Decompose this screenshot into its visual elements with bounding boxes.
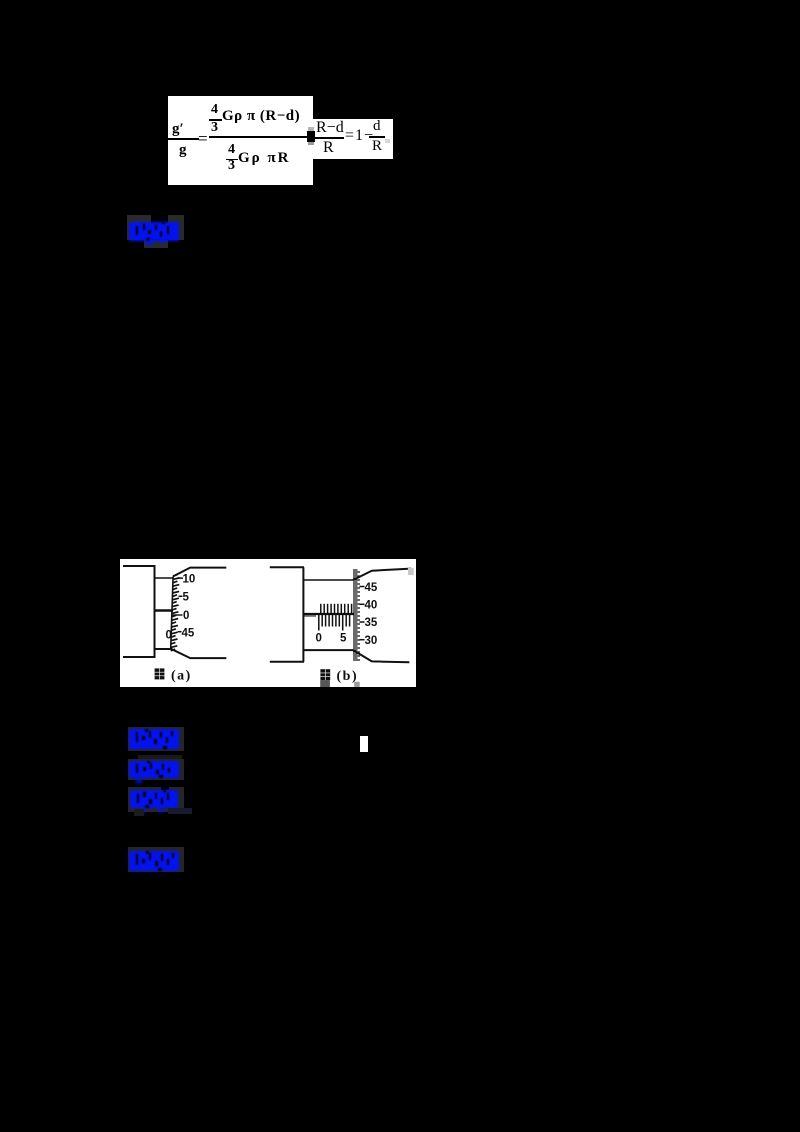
zero dash a xyxy=(172,614,183,616)
knurl a xyxy=(171,574,180,650)
svg-text:40: 40 xyxy=(365,600,378,612)
main fraction bar xyxy=(209,136,313,138)
blue label D gray xyxy=(128,847,184,872)
denominator 4/3 xyxy=(228,142,235,158)
formula g'/g xyxy=(172,121,184,138)
diagram white box xyxy=(120,559,416,687)
thimble edge a xyxy=(171,576,173,649)
main scale lower ticks b xyxy=(319,615,350,631)
blue label B gray xyxy=(128,759,184,780)
numerator 4/3 xyxy=(211,102,218,118)
R-d over R xyxy=(316,119,344,137)
numerator G rho pi (R-d) xyxy=(222,108,300,125)
=1- xyxy=(345,127,374,145)
sleeve lines a xyxy=(155,577,173,579)
caption a xyxy=(155,668,192,683)
blue label C gray xyxy=(128,787,184,812)
thimble outline b xyxy=(353,569,411,580)
sleeve lines b xyxy=(303,579,353,581)
label dashes a xyxy=(178,577,184,579)
d over R xyxy=(373,118,381,135)
svg-text:10: 10 xyxy=(183,573,196,585)
white cursor xyxy=(360,736,368,752)
black square artifact xyxy=(307,131,315,142)
frame outline b xyxy=(270,566,304,568)
blue label A gray xyxy=(128,727,184,751)
svg-text:45: 45 xyxy=(182,627,195,639)
label dashes b xyxy=(360,586,365,588)
formula white box main xyxy=(168,96,313,185)
svg-text:30: 30 xyxy=(365,635,378,647)
gray artifacts xyxy=(408,568,414,575)
formula white box right extension xyxy=(311,119,393,159)
knurl b xyxy=(353,570,360,660)
main scale upper ticks b xyxy=(321,604,352,614)
svg-text:0: 0 xyxy=(183,610,189,622)
svg-text:35: 35 xyxy=(365,617,378,629)
svg-text:(a): (a) xyxy=(171,669,192,684)
svg-text:5: 5 xyxy=(183,592,190,604)
equals 1 xyxy=(198,129,208,149)
denominator G rho pi R xyxy=(238,150,291,167)
frame outline a xyxy=(123,565,155,567)
svg-text:0: 0 xyxy=(166,630,172,642)
faint band xyxy=(138,755,182,759)
svg-text:0: 0 xyxy=(316,633,322,645)
thimble outline a xyxy=(173,568,226,577)
blue label 1 xyxy=(129,222,179,241)
svg-text:45: 45 xyxy=(365,582,378,594)
caption b xyxy=(320,669,358,684)
blue label 1 gray mosaic xyxy=(127,215,151,240)
svg-text:5: 5 xyxy=(340,632,347,644)
